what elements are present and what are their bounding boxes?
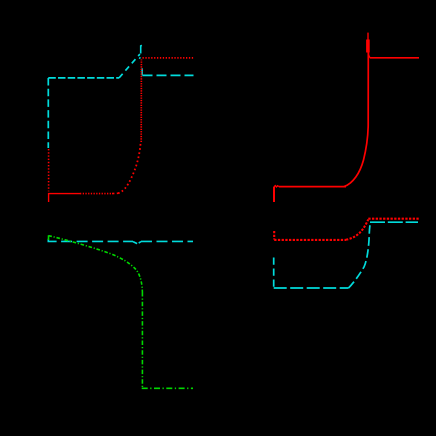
- bottom-left panel: green dash-dot start tick: [48, 235, 50, 240]
- top-left panel: cyan dashed plateau: [48, 77, 119, 79]
- top-left panel: cyan short bit below spike: [138, 57, 141, 59]
- bottom-left panel: cyan long-dash level line (left of dip): [48, 239, 133, 242]
- top-left panel: cyan dashed vertical at inner boundary: [47, 78, 49, 148]
- bottom-right panel: cyan dashed steep rise: [349, 222, 372, 288]
- top-left panel: red dotted upper plateau: [143, 57, 194, 59]
- bottom-left panel: green dash-dot steep drop: [141, 292, 143, 388]
- bottom-left panel: green dash-dot bottom plateau: [143, 387, 194, 390]
- bottom-left panel: cyan long-dash level line (right of dip): [141, 240, 193, 242]
- bottom-right panel: cyan dashed lower plateau: [274, 287, 349, 289]
- top-left panel: cyan descent to post-front plateau: [141, 68, 143, 75]
- top-left panel: red dotted steep front: [140, 60, 142, 143]
- top-right panel: red solid upper plateau: [370, 57, 419, 59]
- top-left panel: red dotted pre-rise: [112, 192, 118, 194]
- top-left panel: cyan spike at front: [141, 45, 142, 53]
- top-left panel: red dotted vertical at inner boundary: [48, 149, 50, 191]
- bottom-right panel: cyan dashed vertical at inner boundary: [273, 258, 275, 288]
- top-left panel: red dotted rise at ionization front: [118, 142, 141, 193]
- bottom-right panel: red dotted upper plateau: [368, 218, 420, 220]
- top-left panel: cyan dashed post-front plateau: [143, 74, 194, 76]
- bottom-left panel: green dash-dot decaying curve: [49, 236, 143, 292]
- top-right panel: red thin spike tip: [367, 33, 369, 40]
- top-left panel: cyan dashed ramp to front peak: [119, 54, 140, 78]
- bottom-right panel: cyan dashed upper plateau: [370, 221, 418, 223]
- bottom-right panel: red dotted lower plateau: [274, 239, 346, 241]
- top-right panel: red solid plateau: [279, 186, 346, 188]
- top-right panel: red thick spike body: [366, 40, 370, 53]
- top-right panel: red solid exponential rise: [344, 52, 368, 187]
- bottom-right panel: red dotted start tick: [273, 231, 275, 240]
- bottom-right panel: red dotted rise: [346, 220, 368, 240]
- top-right panel: red solid lower tail: [273, 187, 275, 202]
- top-right panel: red solid squiggle near boundary: [274, 186, 279, 187]
- top-left panel: red dotted bottom plateau: [80, 193, 112, 195]
- top-right panel: red step to upper plateau: [368, 52, 370, 58]
- bottom-left panel: cyan shallow dip: [133, 242, 141, 244]
- top-left panel: red solid bottom corner with tail: [49, 194, 80, 202]
